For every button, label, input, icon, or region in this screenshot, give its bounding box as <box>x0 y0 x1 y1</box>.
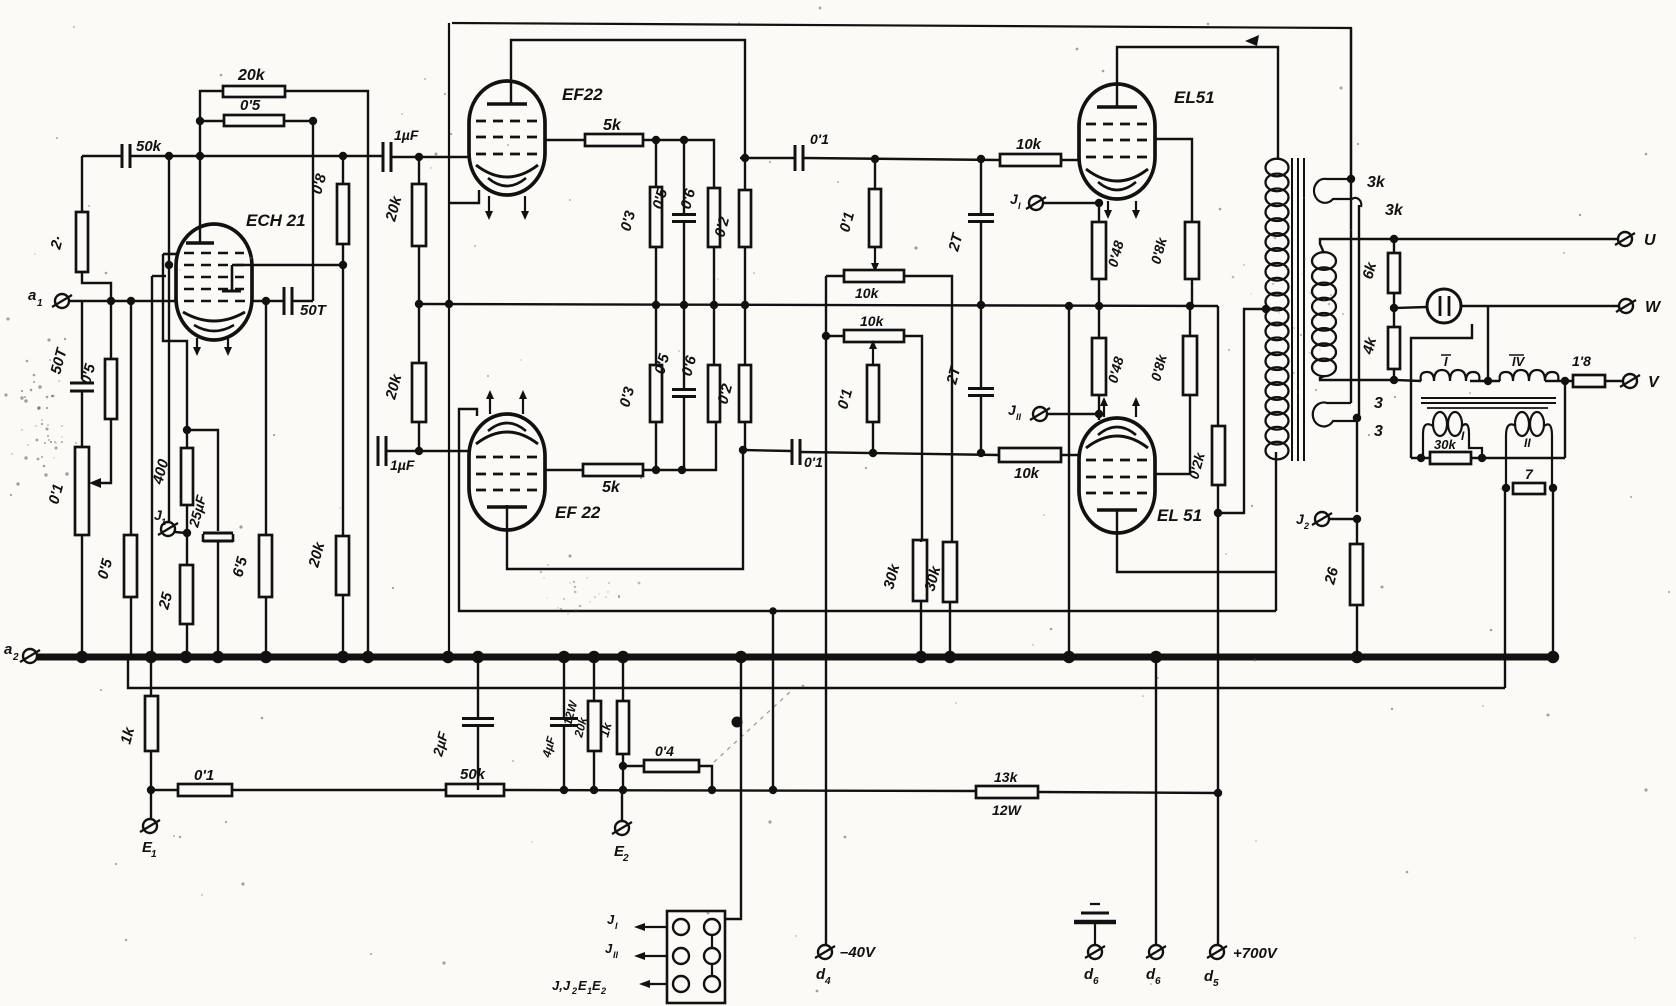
label 30k 1 <box>880 562 903 591</box>
node 0.1col bottom <box>869 449 877 457</box>
label 5k V1 <box>603 117 622 134</box>
wire grid3 stub <box>152 275 166 277</box>
node row d5 <box>1214 789 1222 797</box>
wire 400 bottom <box>186 505 188 565</box>
label d4 <box>816 966 831 987</box>
wire 0.6a bottom <box>713 247 715 305</box>
wire 20k col bottom <box>418 422 420 451</box>
wire fb riser <box>1564 381 1566 458</box>
wire 0.8k2 leads <box>1189 306 1191 474</box>
transformer T1 tap loop bottom <box>1313 402 1357 426</box>
wire top boundary <box>452 23 1351 179</box>
label 0.1 E1 <box>194 767 214 784</box>
svg-text:1: 1 <box>161 517 166 527</box>
label U <box>1644 232 1656 249</box>
terminal U <box>1615 232 1635 246</box>
label 20k c1 <box>382 194 405 224</box>
label a2 <box>4 641 19 663</box>
wire grid2 row y=265 <box>232 264 343 266</box>
wire 2-res top <box>81 156 83 212</box>
resistor 20k mid <box>336 536 349 595</box>
wire 0.5 left node <box>196 117 204 125</box>
connector block <box>667 911 725 1003</box>
wire 2T col bottom <box>980 396 982 453</box>
resistor 50k row <box>446 784 504 796</box>
svg-text:a: a <box>28 287 36 304</box>
label 0.2k <box>1185 450 1208 481</box>
wire EF22 V1 plate loop <box>511 40 745 190</box>
wire block col <box>721 657 741 919</box>
label 1k E2 <box>596 720 614 739</box>
wire 20k12W bottom <box>593 751 595 790</box>
tube EL51 V3 envelope <box>1079 84 1155 199</box>
label 50k row <box>460 766 486 783</box>
pin EF22 V2 heater 1 <box>486 390 494 414</box>
wire mid row y=305 <box>419 304 1218 306</box>
node bias mid <box>183 529 191 537</box>
resistor 0.2 a <box>739 190 751 247</box>
wire EL51 V4 plate <box>1117 510 1276 572</box>
svg-text:30k: 30k <box>1434 437 1456 452</box>
node grid2-0.8 <box>339 261 347 269</box>
tube EF22 V1 envelope <box>469 81 545 195</box>
resistor 6.5 <box>259 535 272 597</box>
wire 6k top <box>1393 239 1395 253</box>
wire tap riser 2 <box>1357 205 1359 418</box>
connector block bar <box>711 930 713 982</box>
wire 2T col top <box>980 159 982 213</box>
label 0.2 a <box>711 214 733 239</box>
label 6k <box>1359 260 1380 281</box>
tube EL51 V4 interior <box>1086 427 1148 510</box>
resistor 7 <box>1513 483 1545 494</box>
svg-text:1'8: 1'8 <box>1572 353 1591 369</box>
wire primary riser <box>1275 452 1277 611</box>
tube EF22 V2 envelope <box>469 414 545 530</box>
wire EL51 V3 cathode col <box>1098 199 1100 222</box>
resistor 0.3 b <box>650 365 662 422</box>
wire 0.5cap a bottom <box>683 222 685 305</box>
wire a1 row <box>69 300 176 302</box>
label 12W small <box>560 698 580 727</box>
terminal d6 <box>1146 945 1166 959</box>
resistor 10k V4 <box>999 448 1061 462</box>
svg-text:13k: 13k <box>994 769 1019 785</box>
wire 0.5a top <box>110 301 112 359</box>
node mid x656 <box>652 301 660 309</box>
wire 0.2k to tap <box>1218 309 1266 513</box>
ink blob <box>714 692 790 762</box>
wire secondary bottom exit <box>1320 376 1394 380</box>
wire EL51 V4 screen <box>1156 473 1190 475</box>
wire 0.8 top <box>342 156 344 184</box>
node grid x=419 <box>415 153 423 161</box>
connector block pins <box>673 919 720 992</box>
pin EL51 V4 heater 2 <box>1132 397 1140 417</box>
node 5k-0.3 <box>652 136 660 144</box>
wire 0.1B arrow <box>869 340 877 365</box>
wire J2 riser <box>1353 414 1361 512</box>
label 0.8k 1 <box>1147 235 1170 266</box>
label EL51 V4 <box>1157 506 1202 525</box>
wire 0.4 lead left <box>623 765 644 767</box>
wire row right <box>1038 792 1218 793</box>
label J2 <box>1296 511 1309 531</box>
wire left heater bus x=449 <box>448 23 450 657</box>
node row x712 <box>708 786 716 794</box>
node bus junctions <box>76 651 1559 663</box>
label block JJ2E1E2 <box>552 978 606 996</box>
svg-text:10k: 10k <box>855 285 880 301</box>
capacitor 2T 1 <box>968 215 994 222</box>
resistor 26 <box>1350 544 1363 605</box>
wire 30k fb row <box>1411 457 1565 459</box>
tube ECH21 triode anode <box>222 265 241 291</box>
wire 0.1B bottom <box>872 422 874 453</box>
wire lower row to 10k <box>801 452 999 455</box>
capacitor 0.5 b <box>672 390 696 397</box>
wire 7 left drop <box>1504 488 1506 688</box>
resistor 0.8k 1 <box>1185 222 1199 279</box>
terminal JI <box>1026 196 1046 210</box>
resistor 0.6 a <box>708 188 720 247</box>
label 0.5 b <box>94 556 116 581</box>
node row x564 <box>560 786 568 794</box>
svg-text:J: J <box>607 912 615 927</box>
label 10k A <box>855 285 880 301</box>
tube EF22 V1 interior <box>476 104 538 186</box>
tube EF22 V2 interior <box>476 423 538 507</box>
resistor 1.8 <box>1573 375 1605 387</box>
node row x623 <box>619 786 627 794</box>
transformer T1 primary winding <box>1266 159 1289 460</box>
wire grid line into EF22 V2 <box>387 450 468 452</box>
wire 0.48-2 top <box>1098 306 1100 338</box>
tube ECH21 bottom dashed row <box>184 300 250 302</box>
wire 26 to bus <box>1356 605 1358 657</box>
wire cathode-bias col top <box>186 430 188 448</box>
label E2 <box>614 843 629 864</box>
wire 5k V2 right <box>643 422 716 470</box>
node 30k left <box>1417 454 1425 462</box>
wire 4k top <box>1393 308 1395 327</box>
label 0.3 a <box>617 208 639 233</box>
label 0.5 top <box>240 97 261 114</box>
resistor 13k <box>976 786 1038 798</box>
label 1uF V1 <box>394 127 419 143</box>
resistor 4k <box>1388 327 1400 369</box>
resistor 30k 1 <box>913 540 927 601</box>
resistor 10k V3 <box>1000 154 1061 166</box>
wire T2 center <box>1470 380 1500 382</box>
transformer T2 core <box>1421 398 1556 408</box>
wire 30k2 bottom <box>949 602 951 657</box>
resistor 30k fb <box>1430 452 1471 464</box>
ground symbol <box>1074 904 1116 945</box>
resistor 0.1 pot <box>75 447 89 535</box>
wire 0.48-2 bottom <box>1098 395 1100 420</box>
capacitor 2T 2 <box>968 389 994 396</box>
wire 0.8k1 bottom <box>1191 279 1193 306</box>
pin EF22 V1 heater 2 <box>521 196 529 220</box>
node 2T bottom <box>977 449 985 457</box>
wire row to 50k <box>232 789 446 791</box>
wire 7 right drop <box>1552 488 1554 657</box>
svg-text:3: 3 <box>1374 423 1383 440</box>
svg-text:+700V: +700V <box>1233 945 1279 962</box>
terminal a1 <box>52 294 72 308</box>
wire 5k V1 lead left <box>545 139 585 141</box>
node EL51 V3 cathode <box>1095 199 1103 207</box>
svg-text:2: 2 <box>1303 521 1309 531</box>
label 20k top <box>237 67 266 84</box>
svg-text:5k: 5k <box>602 479 621 496</box>
node 2T mid <box>977 301 985 309</box>
resistor 30k 2 <box>943 542 957 602</box>
node V row x1565 <box>1561 377 1569 385</box>
svg-text:ECH 21: ECH 21 <box>246 211 306 230</box>
wire x=826 bias line <box>825 276 827 945</box>
svg-text:EF 22: EF 22 <box>555 503 601 522</box>
potentiometer 10k A <box>844 270 904 282</box>
wire block arrow 1 <box>634 923 668 931</box>
resistor 20k 12W <box>588 701 601 751</box>
terminal W <box>1616 299 1636 313</box>
svg-text:2: 2 <box>600 986 606 996</box>
wire 26 top <box>1356 519 1358 544</box>
wire 0.5cap a top <box>683 140 685 214</box>
pin EL51 V4 heater 1 <box>1100 397 1108 417</box>
node 0.5 right <box>309 117 317 125</box>
svg-text:1: 1 <box>37 298 43 309</box>
node plate col x=199 <box>196 152 204 160</box>
wire x=152 col <box>151 276 153 657</box>
wire cathode row right <box>252 300 283 302</box>
wire EF22 V1 suppressor loop <box>449 190 479 203</box>
capacitor 4uF <box>550 719 578 726</box>
label 0.6 b <box>678 353 700 378</box>
wire x773 col <box>772 611 774 790</box>
resistor 0.1 E1 <box>178 784 232 796</box>
node row x773 <box>769 607 777 794</box>
node primary tap <box>1262 305 1270 313</box>
label 3 2 <box>1374 423 1383 440</box>
resistor 0.48 1 <box>1092 222 1106 279</box>
wire 6.5 col <box>265 301 267 657</box>
pin EL51 V3 heater 1 <box>1104 201 1112 219</box>
wire heater return y=688 <box>128 658 1505 688</box>
resistor 400 <box>181 448 193 505</box>
terminal E2 <box>612 821 632 835</box>
wire T2 center riser <box>1487 307 1489 381</box>
label 400 <box>149 457 172 487</box>
wire main grid line y=156 <box>82 155 121 157</box>
label 0.4 <box>655 743 674 759</box>
svg-text:U: U <box>1644 232 1656 249</box>
resistor 0.4 <box>644 760 699 772</box>
label winding Ib <box>1461 429 1465 443</box>
label J1 <box>154 507 166 527</box>
capacitor 0.1 bottom <box>792 439 800 465</box>
resistor 0.5 b <box>124 535 137 597</box>
node tap top <box>1347 175 1355 183</box>
wire 4k bottom <box>1393 369 1395 380</box>
wire J1 to bias node <box>175 532 186 533</box>
wire pot B left lead <box>826 335 844 337</box>
wire 1k E2 col <box>622 657 624 701</box>
node tap bottom <box>1353 414 1361 422</box>
node a1 row 1 <box>107 297 115 305</box>
svg-text:3: 3 <box>1374 395 1383 412</box>
wire 4uF bottom <box>563 726 565 790</box>
label ECH21 <box>246 211 306 230</box>
svg-text:50T: 50T <box>300 302 328 319</box>
wire 0.6b top <box>713 305 715 365</box>
node mid x1069 <box>1065 302 1073 310</box>
transformer T1 core <box>1292 158 1304 461</box>
label winding IV <box>1509 354 1526 369</box>
svg-text:–40V: –40V <box>840 944 877 961</box>
node E1 row <box>147 786 155 794</box>
transformer T1 secondary winding <box>1312 252 1336 376</box>
wire ground drop x1069 <box>1068 306 1070 657</box>
label 0.1 top <box>810 131 829 147</box>
wire meter stub <box>1411 324 1472 458</box>
label d6 <box>1146 966 1161 987</box>
capacitor 25uF <box>203 533 233 542</box>
svg-text:20k: 20k <box>237 67 266 84</box>
label 1.8 <box>1572 353 1591 369</box>
potentiometer 10k B <box>844 330 904 342</box>
wire pot A right <box>904 276 952 542</box>
label 20k 12W <box>571 715 590 740</box>
node 7 right <box>1549 484 1557 492</box>
wire 0.2a top <box>744 189 746 191</box>
tube EL51 V3 interior <box>1086 107 1148 190</box>
wire 20k col mid <box>418 246 420 363</box>
resistor 20k c1 <box>412 184 426 246</box>
label 0.3 b <box>616 384 638 409</box>
resistor 20k c2 <box>412 363 426 422</box>
wire 0.5b col <box>130 301 132 657</box>
label -40V <box>840 944 877 961</box>
resistor 20k top <box>223 86 285 97</box>
resistor 1k E2 <box>617 701 629 754</box>
label 2uF <box>429 730 451 759</box>
resistor 0.2 b <box>739 365 751 422</box>
transformer T2 winding Ib <box>1423 412 1482 458</box>
wire V row <box>1394 380 1421 381</box>
transformer T2 winding I <box>1421 370 1480 381</box>
pin EF22 V1 heater 1 <box>485 196 493 220</box>
transformer T1 tap loop top <box>1314 179 1361 207</box>
label V <box>1648 374 1660 391</box>
wire 20k left lead <box>200 91 223 243</box>
wire 25 to bus <box>186 624 188 657</box>
wire 50T col lower <box>81 391 83 447</box>
wire tap riser 1 <box>1350 28 1352 403</box>
wire to 10k V3 <box>804 158 1000 160</box>
wire 0.3b top <box>655 305 657 365</box>
svg-text:6: 6 <box>1155 976 1161 987</box>
label 20k mid <box>305 540 328 570</box>
label winding I <box>1441 354 1451 369</box>
svg-text:2: 2 <box>622 853 629 864</box>
wire 0.1A col top <box>874 159 876 189</box>
resistor 0.48 2 <box>1092 338 1106 395</box>
node mid x745 <box>741 301 749 309</box>
svg-text:1µF: 1µF <box>390 457 415 473</box>
node 2T top <box>977 155 985 163</box>
label 0.1 A <box>836 210 858 234</box>
svg-text:V: V <box>1648 374 1660 391</box>
wire row mid <box>504 790 976 791</box>
capacitor 50T left <box>70 383 94 391</box>
wire 2-res bottom bend <box>82 272 111 301</box>
wire 0.2b top <box>744 305 746 365</box>
node 5k-0.5 <box>680 136 688 144</box>
label 12W <box>992 802 1023 818</box>
wire 0.3a top <box>655 140 657 187</box>
resistor 0.8k 2 <box>1183 336 1197 395</box>
tube EL51 V4 envelope <box>1079 418 1155 533</box>
polarity arrow <box>1245 35 1259 46</box>
svg-text:50k: 50k <box>136 138 162 155</box>
svg-text:10k: 10k <box>860 313 885 329</box>
label 3 1 <box>1374 395 1383 412</box>
resistor 0.1 A <box>869 189 881 247</box>
node cathode junction <box>183 426 191 434</box>
wire 0.2a bottom <box>744 247 746 305</box>
terminal d6b <box>1085 945 1105 959</box>
wire 0.4 lead right <box>699 766 712 790</box>
node pot B left <box>822 332 830 340</box>
terminal V <box>1620 374 1640 388</box>
svg-text:50k: 50k <box>460 766 486 783</box>
resistor 5k V1 <box>585 134 643 146</box>
terminal JII <box>1030 407 1050 421</box>
svg-text:E: E <box>592 978 601 993</box>
wire E2 drop <box>621 790 623 821</box>
node mid x1190 <box>1186 302 1194 310</box>
wire 20k mid to bus <box>342 595 344 657</box>
label JI <box>1010 191 1021 211</box>
wire d6 col <box>1155 657 1157 945</box>
pin EF22 V2 heater 2 <box>519 390 527 414</box>
label 4uF <box>539 734 558 759</box>
wire 5k V2 lead <box>545 469 583 471</box>
label 0.5 a <box>77 361 99 386</box>
wire pot A left <box>826 275 844 277</box>
svg-text:5k: 5k <box>603 117 622 134</box>
resistor 0.5 top <box>224 115 284 126</box>
resistor 6k <box>1388 253 1400 293</box>
svg-text:3k: 3k <box>1385 202 1404 219</box>
transformer T2 winding II <box>1506 412 1552 488</box>
node 5k2-0.5 <box>678 466 686 474</box>
node 0.8 col x=343 <box>339 152 347 160</box>
node 7 left <box>1502 484 1510 492</box>
label 0.1 pot <box>45 482 67 506</box>
label 4k <box>1359 335 1380 357</box>
node 5k2-0.3 <box>652 466 660 474</box>
resistor 1k E1 <box>145 696 158 751</box>
wire block arrow 3 <box>639 980 668 988</box>
pin EL51 V3 heater 2 <box>1132 201 1140 219</box>
wire 50T to x313 <box>293 300 313 302</box>
label 0.6 a <box>677 186 699 211</box>
capacitor 2uF <box>462 719 494 726</box>
